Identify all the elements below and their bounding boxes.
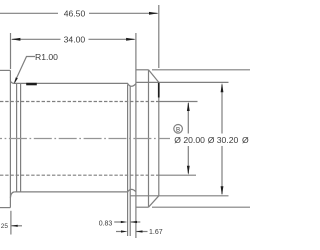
fillet top-left R1 — [10, 81, 14, 84]
flange bottom-right chamfer — [149, 196, 159, 207]
1.67 right arrow (points left) — [136, 230, 143, 232]
flange bottom extension to right edge — [152, 206, 250, 208]
bore hidden line top — [0, 101, 159, 103]
bore top extension solid — [159, 101, 198, 103]
main body top edge with groove dip — [15, 83, 136, 86]
dia20 bottom arrow (down) — [187, 166, 190, 175]
flange bottom edge — [136, 206, 149, 208]
left flange top edge — [0, 69, 10, 71]
svg-text:0.83: 0.83 — [99, 220, 113, 227]
bore bottom extension solid — [159, 174, 196, 176]
left end edge circles (verticals) — [16, 83, 18, 191]
dia 20.00 dimension line — [187, 103, 189, 134]
0.83 left arrow (points right) — [121, 221, 128, 223]
svg-text:46.50: 46.50 — [64, 8, 86, 18]
leader R1.00 — [15, 57, 36, 83]
dimension 46.50 line — [0, 12, 58, 14]
svg-text:R1.00: R1.00 — [35, 52, 58, 62]
fillet bottom-left R1 — [10, 192, 14, 198]
extension line right for 46.50 — [158, 5, 160, 68]
flange top-right chamfer — [149, 70, 159, 83]
groove face edge verticals — [127, 85, 129, 237]
chamfer-cylinder edge circle — [158, 82, 160, 195]
34.00 left arrow — [11, 38, 21, 41]
extension line left for 34.00 — [10, 33, 12, 69]
flange top extension to right edge — [152, 69, 250, 71]
1.67 dim arrow tails — [116, 231, 122, 233]
34.00 right arrow — [126, 38, 136, 41]
dia20 top arrow (up) — [187, 102, 190, 111]
right cylinder bottom edge / extension for dia 30.20 — [130, 195, 228, 197]
svg-text:Ø 3: Ø 3 — [242, 135, 250, 145]
dia30.2 top arrow (up) — [221, 83, 224, 92]
0.83 dim arrow tails — [114, 221, 121, 223]
25 dim: extension line — [10, 211, 12, 235]
dia 30.20 dimension line — [221, 85, 223, 134]
25 dim arrow tail — [11, 225, 22, 227]
arrowheads dark — [11, 12, 224, 233]
0.83 right arrow (points left) — [130, 221, 137, 223]
left flange bottom edge — [0, 207, 10, 209]
svg-text:B: B — [176, 126, 180, 133]
dia30.2 bottom arrow (down) — [221, 186, 224, 195]
dimension 34.00 line — [12, 38, 61, 40]
25 arrow (points left) — [11, 225, 18, 227]
svg-text:Ø 20.00: Ø 20.00 — [174, 135, 205, 145]
svg-text:25: 25 — [1, 223, 9, 230]
svg-text:1.67: 1.67 — [149, 229, 163, 236]
black bar on top edge — [26, 83, 37, 86]
left flange right face (edge circle, full height) — [9, 70, 11, 207]
black bar at chamfer edge — [158, 83, 160, 98]
flange top edge — [136, 69, 149, 71]
flange chamfer edge circle — [148, 70, 150, 207]
svg-text:34.00: 34.00 — [64, 34, 86, 44]
1.67 left arrow (points right) — [121, 230, 128, 232]
centerline — [0, 138, 170, 140]
right cylinder top edge / extension for dia 30.20 — [136, 81, 229, 83]
bore hidden line bottom — [0, 174, 159, 176]
datum B circle — [174, 125, 183, 134]
main body bottom edge with groove arch — [15, 189, 136, 192]
svg-text:Ø 30.20: Ø 30.20 — [208, 135, 239, 145]
flange left face vertical with extensions up and down — [135, 33, 137, 238]
46.50 right arrow — [149, 12, 159, 15]
R1.00 leader arrow — [14, 77, 18, 84]
